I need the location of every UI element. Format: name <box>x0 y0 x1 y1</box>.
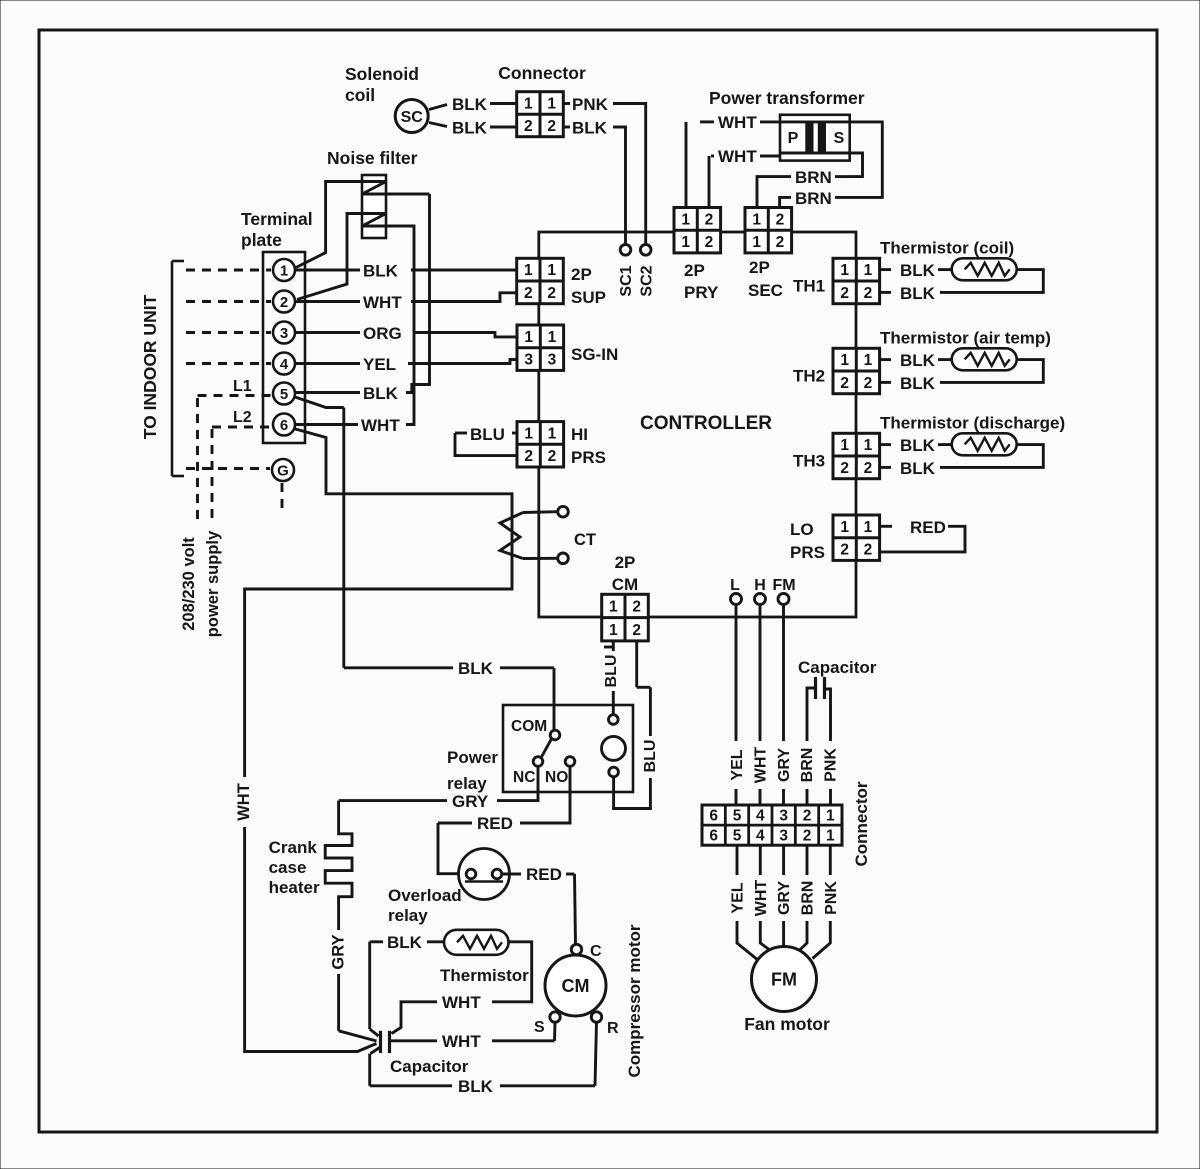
wire L to pin5 <box>735 789 738 805</box>
svg-text:2: 2 <box>776 211 785 228</box>
wire terminal5 to BLK <box>295 391 360 394</box>
wire FM to pin3 <box>782 789 785 805</box>
svg-text:CT: CT <box>574 531 596 549</box>
svg-text:Capacitor: Capacitor <box>390 1057 469 1076</box>
wire label YEL (t4) <box>363 355 396 374</box>
dashed wire L2 to terminal6 <box>212 427 271 523</box>
relay contact NO <box>545 757 575 786</box>
terminal S <box>534 1012 560 1036</box>
svg-text:Capacitor: Capacitor <box>798 658 877 677</box>
wire LO PRS pin1 dash <box>880 525 892 528</box>
label 208/230 volt power supply <box>180 530 222 637</box>
dashed wire L1 to terminal5 <box>198 396 272 524</box>
svg-text:2P: 2P <box>571 265 592 284</box>
svg-text:FM: FM <box>771 970 797 990</box>
svg-text:1: 1 <box>524 95 533 112</box>
svg-text:BLK: BLK <box>900 351 936 370</box>
svg-text:GRY: GRY <box>776 881 793 915</box>
thermistor label TH2 <box>880 328 1051 347</box>
wire label WHT (upper) <box>442 993 481 1012</box>
svg-text:208/230 volt: 208/230 volt <box>180 537 198 631</box>
wire terminal4 to YEL <box>295 362 360 365</box>
svg-text:PNK: PNK <box>823 748 840 782</box>
svg-text:1: 1 <box>547 262 556 279</box>
wire thermistor TH3 return <box>940 445 1043 468</box>
svg-text:GRY: GRY <box>330 934 348 969</box>
svg-text:COM: COM <box>511 718 547 735</box>
svg-text:2: 2 <box>864 460 873 477</box>
svg-text:case: case <box>269 858 307 877</box>
overload relay <box>459 849 510 900</box>
wire BLK to thermistor TH1 <box>938 268 952 271</box>
svg-text:1: 1 <box>609 598 618 615</box>
dashed wire to terminal4 <box>186 362 271 365</box>
wire WHT2 label <box>718 147 757 166</box>
svg-text:R: R <box>607 1020 619 1037</box>
svg-text:LO: LO <box>790 520 814 539</box>
svg-text:RED: RED <box>526 865 562 884</box>
svg-text:BLK: BLK <box>458 659 494 678</box>
svg-text:Thermistor (air temp): Thermistor (air temp) <box>880 328 1051 347</box>
svg-text:Crank: Crank <box>269 838 318 857</box>
relay coil terminal top <box>609 715 619 725</box>
wire TH1 pin1 dash <box>880 268 891 271</box>
label YEL (below connector) <box>730 882 747 913</box>
wire label BLK (SC1) <box>452 95 488 114</box>
svg-text:1: 1 <box>826 828 835 845</box>
svg-text:BLK: BLK <box>452 95 488 114</box>
svg-text:1: 1 <box>864 519 873 536</box>
svg-text:1: 1 <box>280 263 288 280</box>
wire WHT1 label <box>718 113 757 132</box>
connector SG-IN <box>517 325 564 370</box>
connector 6P (fan motor) <box>702 805 842 845</box>
svg-text:TO INDOOR UNIT: TO INDOOR UNIT <box>140 294 160 439</box>
wire BLK to thermistor TH2 <box>938 358 952 361</box>
wire RED loop LO PRS <box>880 526 965 552</box>
wire terminal6 to WHT <box>295 423 358 426</box>
svg-text:S: S <box>534 1019 545 1036</box>
thermistor label (compressor) <box>440 966 529 985</box>
wire terminal2 to WHT <box>295 300 360 303</box>
wire pin5 to fan YEL <box>737 845 759 960</box>
svg-text:PRS: PRS <box>790 543 825 562</box>
wire SC pin1 <box>429 105 447 110</box>
svg-text:BLK: BLK <box>900 261 936 280</box>
solenoid coil label <box>345 64 419 105</box>
svg-text:3: 3 <box>280 325 288 342</box>
terminal 5 <box>273 383 295 405</box>
svg-text:6: 6 <box>709 828 718 845</box>
label TH1 <box>793 276 825 295</box>
connector 2P PRY <box>674 208 721 253</box>
dashed wire to terminal2 <box>186 300 271 303</box>
wire PNK to pin1 <box>829 789 832 805</box>
svg-text:2: 2 <box>548 448 557 465</box>
wire BLK to 2P SUP pin1 <box>411 269 517 272</box>
terminal 4 <box>273 353 295 375</box>
wire label WHT (lower) <box>442 1032 481 1051</box>
svg-text:G: G <box>277 463 289 480</box>
power transformer <box>780 115 850 161</box>
svg-text:5: 5 <box>733 808 742 825</box>
svg-text:L: L <box>730 577 740 594</box>
svg-text:3: 3 <box>779 808 788 825</box>
svg-text:TH1: TH1 <box>793 276 825 295</box>
wire transformer P bottom <box>709 156 780 208</box>
wire H down <box>759 605 762 742</box>
wire label BLK (TH3 pin2) <box>900 459 936 478</box>
relay coil <box>602 736 626 760</box>
svg-text:4: 4 <box>756 808 765 825</box>
terminal G <box>272 459 294 481</box>
svg-text:PRY: PRY <box>684 283 719 302</box>
label 2P SUP <box>571 265 606 307</box>
wire H to pin4 <box>759 789 762 805</box>
wire SC pin2 <box>429 123 447 127</box>
capacitor label (compressor) <box>390 1057 469 1076</box>
label CONTROLLER <box>640 413 772 434</box>
label Connector (fan) <box>852 781 871 866</box>
wire BRN to pin2 <box>806 789 809 805</box>
thermistor label TH3 <box>880 413 1065 432</box>
svg-text:2: 2 <box>840 460 849 477</box>
terminal C <box>571 943 602 960</box>
svg-text:ORG: ORG <box>363 324 402 343</box>
wire YEL to SG-IN pin3 <box>408 360 517 364</box>
node SC2 circle <box>640 245 651 256</box>
wire BLK to SC1 <box>613 127 626 245</box>
svg-text:Power transformer: Power transformer <box>709 88 865 108</box>
svg-text:CONTROLLER: CONTROLLER <box>640 413 772 434</box>
wire RED to C terminal <box>566 874 576 944</box>
wire label RED (overload) <box>526 865 562 884</box>
svg-text:TH2: TH2 <box>793 366 825 385</box>
wire WHT vertical to capacitor <box>245 827 377 1052</box>
connector 2P SEC <box>745 208 792 253</box>
node CT terminal top <box>558 506 569 517</box>
svg-text:1: 1 <box>548 425 557 442</box>
wire elbow BLK terminal5 <box>406 194 430 393</box>
svg-text:WHT: WHT <box>753 880 770 917</box>
wire label WHT (t2) <box>363 293 402 312</box>
wire pin3 to fan GRY <box>782 845 785 948</box>
bracket TO INDOOR UNIT <box>172 261 184 476</box>
svg-text:2: 2 <box>547 118 556 135</box>
noise filter label <box>327 148 418 168</box>
label BRN (above connector) <box>799 748 816 783</box>
wire label BLU (HI PRS) <box>470 425 505 444</box>
wire L down <box>735 605 738 742</box>
power relay label <box>447 748 498 793</box>
terminal 2 <box>273 291 295 313</box>
relay switch arm <box>541 739 552 758</box>
svg-text:Solenoid: Solenoid <box>345 64 419 84</box>
wire label PNK <box>563 95 609 114</box>
svg-text:WHT: WHT <box>718 147 757 166</box>
crank case heater element <box>325 801 352 930</box>
terminal plate box <box>263 252 305 443</box>
wire WHT upper to capacitor <box>392 1002 438 1034</box>
thermistor element TH3 <box>952 433 1017 455</box>
fan motor label <box>744 1014 830 1034</box>
wire TH3 pin1 dash <box>880 443 891 446</box>
svg-text:1: 1 <box>864 437 873 454</box>
wire BLK bottom to R terminal <box>500 1022 597 1086</box>
label H <box>754 577 766 594</box>
label WHT (above connector) <box>753 747 770 784</box>
svg-text:BRN: BRN <box>795 189 832 208</box>
wire label BLK (bottom) <box>458 1077 494 1096</box>
svg-text:Terminal: Terminal <box>241 209 313 229</box>
svg-text:2: 2 <box>776 234 785 251</box>
wire label BLK (TH2 pin1) <box>900 351 936 370</box>
wire label BLK (TH1 pin1) <box>900 261 936 280</box>
relay coil terminal bottom <box>609 767 619 777</box>
wire BRN2 label <box>795 189 832 208</box>
svg-text:1: 1 <box>864 262 873 279</box>
svg-text:BLU: BLU <box>470 425 505 444</box>
capacitor (compressor) <box>381 1031 390 1053</box>
wire BRN1 label <box>795 168 832 187</box>
wire overload to RED2 <box>502 873 521 876</box>
svg-text:SC2: SC2 <box>639 265 656 296</box>
wire TH2 pin2 dash <box>880 381 891 384</box>
svg-text:SUP: SUP <box>571 288 606 307</box>
connector HI PRS <box>517 422 564 467</box>
svg-text:6: 6 <box>280 417 288 434</box>
wire label BLU (pin1) <box>603 647 620 687</box>
wire WHT lower to S terminal <box>390 1022 555 1041</box>
svg-text:PRS: PRS <box>571 448 606 467</box>
svg-text:Compressor motor: Compressor motor <box>625 924 644 1077</box>
svg-text:1: 1 <box>547 95 556 112</box>
svg-text:2: 2 <box>840 285 849 302</box>
svg-text:WHT: WHT <box>718 113 757 132</box>
overload relay label <box>388 886 462 925</box>
svg-text:1: 1 <box>524 329 533 346</box>
wire terminal3 to ORG <box>295 331 360 334</box>
wire filter top-left to terminal 1 <box>296 182 362 268</box>
svg-text:1: 1 <box>524 425 533 442</box>
svg-text:heater: heater <box>269 878 320 897</box>
svg-text:2: 2 <box>524 448 533 465</box>
wire pin1 to fan PNK <box>813 845 831 958</box>
relay contact COM <box>511 718 560 740</box>
svg-text:SC1: SC1 <box>618 265 635 296</box>
wire BLK to connector pin1 <box>490 102 517 105</box>
wire BLK thermistor left <box>370 942 444 1036</box>
svg-text:2: 2 <box>864 542 873 559</box>
svg-text:TH3: TH3 <box>793 451 825 470</box>
svg-text:BLK: BLK <box>900 459 936 478</box>
svg-text:1: 1 <box>840 437 849 454</box>
wire TH1 pin2 dash <box>880 291 891 294</box>
svg-text:2: 2 <box>803 808 812 825</box>
svg-text:GRY: GRY <box>776 748 793 782</box>
svg-text:BLU: BLU <box>642 740 659 773</box>
relay contact NC <box>513 757 543 786</box>
wire GRY heater to capacitor <box>339 974 377 1041</box>
svg-text:3: 3 <box>548 352 557 369</box>
wire label BLK (thermistor) <box>387 933 423 952</box>
svg-text:WHT: WHT <box>753 747 770 784</box>
svg-text:YEL: YEL <box>363 355 396 374</box>
fan motor FM <box>752 947 817 1012</box>
svg-text:2: 2 <box>524 118 533 135</box>
wire NC to GRY <box>497 766 538 800</box>
current transformer CT <box>500 512 558 559</box>
wire label RED (LO PRS) <box>910 518 946 537</box>
wire transformer S bottom <box>757 153 863 208</box>
node SC1 circle <box>620 245 631 256</box>
node CT terminal bottom <box>558 553 569 564</box>
svg-text:2: 2 <box>632 598 641 615</box>
svg-text:BRN: BRN <box>795 168 832 187</box>
svg-text:2: 2 <box>840 375 849 392</box>
svg-text:2: 2 <box>864 285 873 302</box>
svg-text:SG-IN: SG-IN <box>571 345 618 364</box>
svg-text:1: 1 <box>864 352 873 369</box>
wire label BLK (TH3 pin1) <box>900 436 936 455</box>
svg-text:L2: L2 <box>233 409 252 426</box>
svg-text:RED: RED <box>910 518 946 537</box>
wire label BLK (TH1 pin2) <box>900 284 936 303</box>
svg-text:1: 1 <box>752 234 761 251</box>
terminal 1 <box>273 259 295 281</box>
svg-text:power supply: power supply <box>204 530 222 637</box>
label L <box>730 577 740 594</box>
svg-text:3: 3 <box>524 352 533 369</box>
svg-text:Power: Power <box>447 748 498 767</box>
label WHT (below connector) <box>753 880 770 917</box>
label SC2 <box>639 265 656 296</box>
svg-text:Fan motor: Fan motor <box>744 1014 830 1034</box>
svg-text:1: 1 <box>840 262 849 279</box>
svg-text:Thermistor (coil): Thermistor (coil) <box>880 238 1014 257</box>
connector TH3 <box>833 433 880 478</box>
thermistor element (compressor) <box>444 930 509 955</box>
svg-text:relay: relay <box>388 906 428 925</box>
wire ORG to SG-IN pin1 <box>413 333 517 337</box>
connector 2P SUP <box>517 258 564 303</box>
wire terminal6 branch to CT loop <box>245 429 512 778</box>
svg-text:1: 1 <box>840 352 849 369</box>
wire FM down <box>782 605 785 742</box>
svg-text:1: 1 <box>840 519 849 536</box>
dashed wire to terminal1 <box>186 269 271 272</box>
svg-text:2P: 2P <box>684 261 705 280</box>
svg-text:L1: L1 <box>233 378 252 395</box>
svg-text:2: 2 <box>864 375 873 392</box>
label SG-IN <box>571 345 618 364</box>
wire label GRY (heater) <box>330 934 348 969</box>
wire transformer P top <box>686 122 780 208</box>
svg-text:1: 1 <box>681 211 690 228</box>
svg-text:Thermistor (discharge): Thermistor (discharge) <box>880 413 1065 432</box>
node L <box>731 594 742 605</box>
wire label WHT (vertical) <box>235 783 253 821</box>
svg-text:1: 1 <box>548 329 557 346</box>
svg-text:1: 1 <box>752 211 761 228</box>
noise filter <box>362 175 386 238</box>
svg-text:BLU: BLU <box>603 655 620 688</box>
svg-text:2P: 2P <box>749 258 770 277</box>
wire BLK to connector pin2 <box>490 126 517 129</box>
label YEL (above connector) <box>729 749 746 780</box>
svg-text:1: 1 <box>524 262 533 279</box>
label HI PRS <box>571 425 606 467</box>
svg-text:Thermistor: Thermistor <box>440 966 529 985</box>
svg-text:3: 3 <box>779 828 788 845</box>
terminal R <box>591 1012 619 1037</box>
svg-text:H: H <box>754 577 766 594</box>
label GRY (above connector) <box>776 748 793 782</box>
wire RED to overload relay <box>438 823 472 874</box>
svg-text:Connector: Connector <box>852 781 871 866</box>
label SC1 <box>618 265 635 296</box>
label Compressor motor <box>625 924 644 1077</box>
svg-text:1: 1 <box>826 808 835 825</box>
svg-text:4: 4 <box>280 356 289 373</box>
thermistor label TH1 <box>880 238 1014 257</box>
svg-text:2P: 2P <box>615 553 636 572</box>
svg-text:2: 2 <box>705 211 714 228</box>
label S winding <box>834 130 845 147</box>
node FM <box>778 594 789 605</box>
wire thermistor TH2 return <box>940 360 1043 383</box>
svg-text:BLK: BLK <box>452 119 488 138</box>
controller box <box>539 232 856 617</box>
wire label RED (NO) <box>477 814 513 833</box>
svg-text:Overload: Overload <box>388 886 462 905</box>
label TH2 <box>793 366 825 385</box>
wire label BLU (pin2) <box>642 740 659 773</box>
wire GRY to crank case heater <box>339 799 447 802</box>
svg-text:CM: CM <box>612 575 638 594</box>
svg-text:HI: HI <box>571 425 588 444</box>
svg-text:2: 2 <box>840 542 849 559</box>
svg-text:2: 2 <box>524 285 533 302</box>
svg-text:BLK: BLK <box>900 284 936 303</box>
svg-text:GRY: GRY <box>452 792 489 811</box>
svg-text:BLK: BLK <box>458 1077 494 1096</box>
label PNK (below connector) <box>823 881 840 915</box>
svg-text:Connector: Connector <box>498 63 586 83</box>
wire BLK to thermistor TH3 <box>938 443 952 446</box>
svg-text:WHT: WHT <box>442 1032 481 1051</box>
svg-text:coil: coil <box>345 85 375 105</box>
capacitor label (fan) <box>798 658 877 677</box>
label PNK (above connector) <box>823 748 840 782</box>
thermistor element TH2 <box>952 348 1017 370</box>
label TH3 <box>793 451 825 470</box>
thermistor element TH1 <box>952 258 1017 280</box>
svg-text:P: P <box>788 130 799 147</box>
label L2 <box>233 409 252 426</box>
svg-text:RED: RED <box>477 814 513 833</box>
wire thermistor TH1 return <box>940 270 1043 293</box>
label 2P CM <box>612 553 638 594</box>
svg-text:BRN: BRN <box>800 881 817 916</box>
dashed wire to terminal3 <box>186 331 271 334</box>
label FM <box>772 577 795 594</box>
svg-text:5: 5 <box>733 828 742 845</box>
node H <box>755 594 766 605</box>
svg-text:4: 4 <box>756 828 765 845</box>
label TO INDOOR UNIT <box>140 294 160 439</box>
svg-text:NC: NC <box>513 769 535 786</box>
